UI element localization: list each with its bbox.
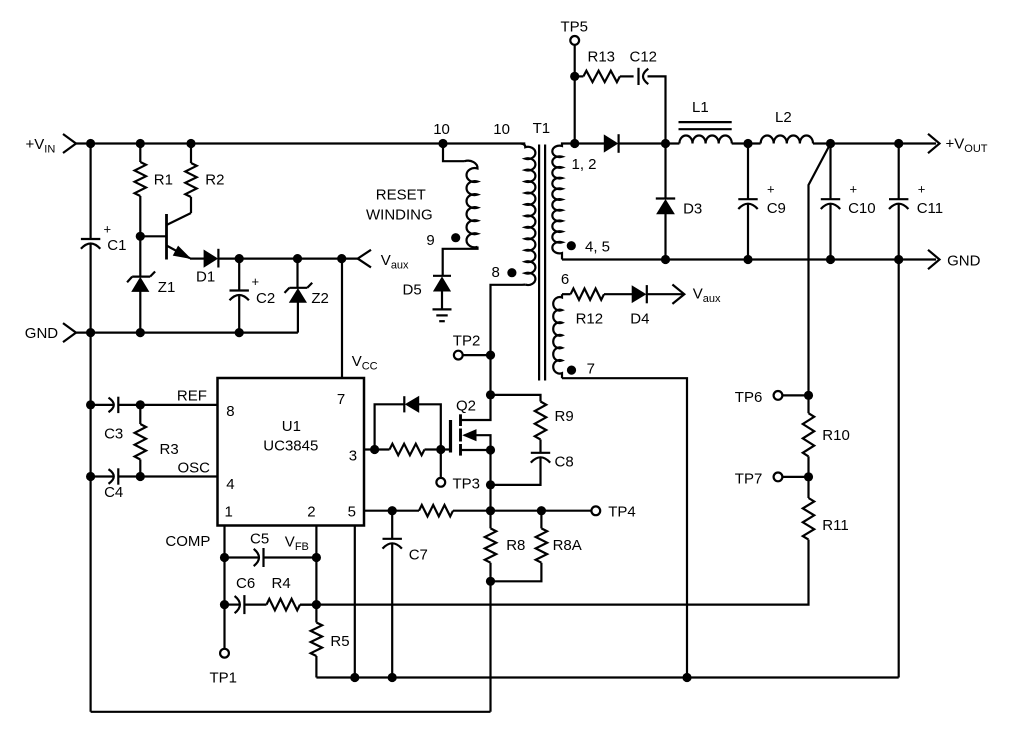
wire GND-out rail: [562, 258, 936, 260]
wire pin5: [364, 510, 419, 512]
core L1: [679, 121, 732, 123]
resistor R11: [803, 498, 814, 540]
wire TP6 diagonal: [809, 144, 831, 396]
node R4 right: [312, 600, 321, 609]
wire D4-arrow: [647, 293, 683, 295]
svg-text:R9: R9: [555, 408, 574, 425]
transistor emitter: [167, 246, 191, 259]
node R3 top: [136, 400, 145, 409]
wire R4 right: [300, 603, 316, 605]
svg-text:C6: C6: [236, 575, 255, 592]
wire C11 top: [898, 144, 900, 200]
node C5 right: [312, 553, 321, 562]
wire gate res right: [425, 448, 451, 450]
wire R12-D4: [604, 293, 632, 295]
transistor emitter arrow: [174, 247, 191, 259]
node source sense: [486, 480, 495, 489]
node D3 bottom: [661, 255, 670, 264]
diode gate bar: [403, 396, 405, 412]
wire C2 top: [238, 259, 240, 291]
resistor R8A: [536, 528, 547, 562]
svg-text:1, 2: 1, 2: [572, 156, 597, 173]
svg-text:C11: C11: [917, 200, 943, 217]
transistor collector: [167, 213, 192, 225]
capacitor C10: [821, 198, 840, 200]
node GND/Z1: [136, 328, 145, 337]
port GND-left chevron: [63, 323, 76, 342]
wire pin1 down: [223, 526, 225, 649]
svg-text:R3: R3: [160, 441, 179, 458]
wire R3 bottom: [139, 460, 141, 477]
wire D5-gnd: [441, 291, 443, 309]
diode D3 bar: [656, 197, 675, 199]
svg-text:D3: D3: [683, 201, 702, 218]
wire TP7-R11: [807, 477, 809, 498]
wire R8A bottom: [491, 563, 542, 582]
wire C6-R4: [244, 603, 266, 605]
svg-text:9: 9: [426, 232, 434, 249]
svg-text:TP6: TP6: [735, 389, 763, 406]
wire Z2 bottom: [297, 302, 299, 332]
phase dot 8: [507, 268, 516, 277]
node Q2 source: [486, 445, 495, 454]
port Vaux-right arrow: [672, 285, 684, 304]
svg-text:OSC: OSC: [178, 460, 211, 477]
wire aux7 line: [562, 378, 687, 677]
wire sense right: [453, 510, 591, 512]
node C5 left: [220, 553, 229, 562]
node gate: [436, 445, 445, 454]
svg-text:TP4: TP4: [608, 503, 636, 520]
diode D1 triangle: [204, 250, 217, 266]
node aux7 bottom: [682, 673, 691, 682]
node C4 left: [86, 472, 95, 481]
wire R9-C8: [539, 440, 541, 453]
wire R11 bottom: [300, 540, 809, 605]
node C11 top: [894, 139, 903, 148]
svg-text:4: 4: [226, 476, 234, 493]
wire R1 bottom: [139, 196, 141, 236]
wire aux out: [562, 293, 571, 295]
wire reset elbow bottom: [443, 247, 478, 276]
svg-text:R1: R1: [154, 171, 173, 188]
wire diode loop: [375, 404, 441, 449]
wire source down: [489, 450, 491, 528]
node +VIN/reset: [438, 139, 447, 148]
svg-text:UC3845: UC3845: [263, 438, 318, 455]
wire D3 top: [664, 144, 666, 199]
resistor R5: [311, 623, 322, 657]
node +VIN/R1: [136, 139, 145, 148]
wire R1 top: [139, 144, 141, 163]
svg-text:C8: C8: [555, 454, 574, 471]
wire R13 left: [575, 75, 584, 77]
svg-text:L2: L2: [775, 109, 792, 126]
wire bottom return: [91, 711, 491, 713]
wire C2 bottom: [238, 295, 240, 332]
node R8A top: [537, 506, 546, 515]
wire bottom rail: [316, 676, 898, 678]
transistor base bar: [165, 214, 168, 260]
port +VOUT chevron: [928, 134, 940, 153]
node +VIN/R2: [186, 139, 195, 148]
wire R3 top: [139, 405, 141, 424]
svg-text:C3: C3: [104, 426, 123, 443]
svg-text:+: +: [918, 182, 926, 197]
capacitor C2: [230, 289, 249, 291]
wire C4 right: [118, 475, 217, 477]
svg-text:R2: R2: [205, 171, 224, 188]
transistor Q2 arrow: [464, 430, 477, 441]
svg-text:8: 8: [492, 264, 500, 281]
wire C3 right: [118, 404, 217, 406]
node sense: [486, 506, 495, 515]
svg-text:C7: C7: [409, 547, 428, 564]
wire primary bottom elbow: [491, 285, 526, 395]
wire +VIN rail: [76, 142, 525, 144]
svg-text:COMP: COMP: [165, 533, 210, 550]
wire C11 bottom: [898, 204, 900, 260]
svg-text:C4: C4: [104, 484, 123, 501]
svg-text:C12: C12: [630, 49, 658, 66]
phase dot 7: [567, 366, 576, 375]
testpoint TP5: [570, 36, 579, 45]
node base: [136, 232, 145, 241]
inductor L1: [679, 136, 731, 144]
wire Q2 body: [465, 435, 491, 450]
wire C5 right: [264, 556, 317, 558]
zener Z2 bar: [289, 287, 307, 289]
node sec top: [570, 139, 579, 148]
transistor Q2 gate bar: [449, 420, 452, 453]
wire C9 bottom: [747, 204, 749, 260]
port +VIN chevron: [63, 134, 76, 153]
wire base-Z1: [139, 236, 141, 277]
svg-text:10: 10: [433, 121, 450, 138]
node GND/C2: [235, 328, 244, 337]
svg-text:D1: D1: [196, 269, 215, 286]
op-amp U1 box: [218, 378, 365, 526]
svg-text:WINDING: WINDING: [366, 206, 433, 223]
resistor sense: [419, 505, 453, 516]
zener Z1 bar: [132, 276, 150, 278]
svg-text:U1: U1: [282, 418, 301, 435]
resistor R9: [535, 402, 546, 440]
wire R8A top: [540, 511, 542, 529]
svg-text:Z2: Z2: [311, 290, 329, 307]
wire pin2 down: [315, 526, 317, 623]
capacitor C9: [738, 198, 757, 200]
svg-text:3: 3: [349, 447, 357, 464]
svg-text:8: 8: [226, 403, 234, 420]
diode D2 triangle: [604, 135, 617, 151]
svg-text:5: 5: [348, 503, 356, 520]
node Q2 drain: [486, 390, 495, 399]
node C3 left: [86, 400, 95, 409]
node C10 top: [826, 139, 835, 148]
diode D5 triangle: [434, 277, 450, 291]
node TP5/R13: [570, 72, 579, 81]
wire C10 top: [829, 144, 831, 200]
svg-text:RESET: RESET: [376, 186, 426, 203]
wire R9 top: [491, 395, 541, 402]
node C9 bottom: [743, 255, 752, 264]
wire C7 bottom: [391, 544, 393, 678]
wire TP7: [782, 476, 808, 478]
wire right drop: [898, 260, 900, 678]
wire C3 left: [91, 404, 114, 406]
wire GND-left rail: [76, 332, 298, 334]
testpoint TP7: [774, 473, 783, 482]
wire TP6: [782, 394, 808, 396]
wire base lead: [140, 235, 166, 237]
svg-text:D5: D5: [403, 282, 422, 299]
svg-text:C5: C5: [250, 531, 269, 548]
ground symbol: [433, 308, 452, 310]
svg-text:R13: R13: [588, 49, 616, 66]
node D3 top: [661, 139, 670, 148]
wire TP2: [463, 354, 491, 356]
svg-text:C10: C10: [848, 200, 876, 217]
wire left bus lower: [89, 244, 91, 712]
svg-text:R4: R4: [272, 575, 291, 592]
wire reset elbow top: [443, 144, 465, 162]
resistor R13: [583, 71, 620, 82]
diode D4 triangle: [632, 286, 645, 302]
node C10 bottom: [826, 255, 835, 264]
svg-text:+: +: [252, 274, 260, 289]
node Vcc tap: [337, 254, 346, 263]
wire TP6-R10: [807, 395, 809, 413]
resistor R1: [135, 162, 146, 196]
node C7 bottom: [388, 673, 397, 682]
zener Z1 triangle: [132, 278, 148, 292]
diode D2 bar: [617, 134, 619, 153]
svg-text:TP7: TP7: [735, 470, 763, 487]
wire C12 right: [648, 76, 666, 143]
node +VIN/C1: [86, 139, 95, 148]
resistor R3: [135, 424, 146, 460]
node C9 top: [743, 139, 752, 148]
node C7 top: [388, 506, 397, 515]
svg-text:T1: T1: [533, 120, 551, 137]
node C2 top: [235, 254, 244, 263]
transformer primary coil: [521, 144, 536, 286]
node pin5gnd: [350, 673, 359, 682]
diode D1 bar: [217, 249, 219, 268]
node TP6: [804, 391, 813, 400]
wire Z2 top: [296, 259, 298, 289]
wire Vcc: [341, 259, 343, 378]
testpoint TP2: [454, 351, 463, 360]
node Z2 top: [293, 254, 302, 263]
wire TP3 up: [440, 450, 442, 478]
wire R2 bottom: [190, 197, 192, 213]
svg-text:GND: GND: [25, 325, 59, 342]
reset winding coil: [465, 161, 478, 248]
svg-text:TP1: TP1: [210, 670, 238, 687]
wire pin5gnd down: [354, 526, 356, 678]
wire R10-TP7: [807, 456, 809, 477]
wire D1-Vaux: [218, 258, 357, 260]
capacitor C4: [117, 468, 119, 484]
wire R5 bottom: [315, 656, 317, 678]
svg-text:C1: C1: [107, 237, 126, 254]
resistor R4: [267, 599, 301, 610]
resistor gate: [390, 444, 425, 455]
svg-text:TP5: TP5: [561, 18, 589, 35]
capacitor C5: [262, 548, 264, 567]
node TP7: [804, 472, 813, 481]
wire Q2 source: [461, 449, 491, 451]
capacitor C8: [531, 452, 550, 454]
transformer secondary coil: [552, 144, 575, 260]
capacitor C3: [117, 397, 119, 413]
capacitor C7: [383, 538, 402, 540]
svg-text:D4: D4: [630, 311, 649, 328]
resistor R10: [803, 413, 814, 456]
svg-text:2: 2: [307, 503, 315, 520]
wire R8 bottom: [489, 563, 491, 712]
diode D3 triangle: [657, 200, 674, 214]
svg-text:R8: R8: [506, 537, 525, 554]
wire C9 top: [747, 144, 749, 200]
svg-text:7: 7: [587, 361, 595, 378]
svg-text:+: +: [767, 182, 775, 197]
wire L1-C9: [732, 142, 761, 144]
node GND/C1: [86, 328, 95, 337]
wire left bus upper: [89, 144, 91, 240]
resistor R2: [185, 163, 196, 197]
capacitor C6: [243, 595, 245, 614]
port GND-right chevron: [928, 250, 940, 269]
core T1: [538, 145, 540, 381]
wire C7 top: [391, 511, 393, 539]
wire C10 bottom: [829, 204, 831, 260]
resistor R12: [571, 289, 604, 300]
resistor R8: [485, 528, 496, 562]
testpoint TP6: [774, 391, 783, 400]
wire C5 left: [225, 556, 259, 558]
diode gate triangle: [406, 397, 419, 412]
svg-text:REF: REF: [177, 387, 207, 404]
svg-text:Q2: Q2: [456, 398, 476, 415]
wire Q2 drain: [461, 395, 491, 420]
capacitor C12: [637, 68, 639, 85]
svg-text:GND: GND: [947, 252, 981, 269]
testpoint TP3: [436, 478, 445, 487]
transistor Q2 channel: [459, 414, 462, 426]
node R8A bottom: [486, 577, 495, 586]
diode D4 bar: [646, 285, 648, 303]
node R3 bottom: [136, 472, 145, 481]
wire L2-out: [813, 142, 936, 144]
node TP2: [486, 351, 495, 360]
wire D3 bottom: [664, 214, 666, 260]
capacitor C11: [889, 198, 908, 200]
svg-text:R8A: R8A: [553, 537, 582, 554]
wire sec-D2: [575, 142, 604, 144]
svg-text:R11: R11: [822, 517, 848, 534]
wire emitter-D1: [190, 258, 204, 260]
svg-text:C9: C9: [767, 200, 786, 217]
testpoint TP1: [220, 649, 229, 658]
wire R2 top: [190, 144, 192, 164]
svg-text:Z1: Z1: [158, 279, 176, 296]
svg-text:TP2: TP2: [453, 333, 481, 350]
wire TP5 down: [574, 45, 576, 144]
phase dot 4,5: [567, 241, 576, 250]
svg-text:6: 6: [561, 271, 569, 288]
svg-text:4, 5: 4, 5: [585, 238, 610, 255]
svg-text:R12: R12: [576, 311, 604, 328]
node pin3 left: [370, 445, 379, 454]
testpoint TP4: [591, 506, 600, 515]
svg-text:R5: R5: [330, 633, 349, 650]
wire pin3: [364, 448, 390, 450]
zener Z2 triangle: [290, 289, 306, 302]
capacitor C1: [81, 238, 100, 240]
node C11 bottom: [894, 255, 903, 264]
wire Z1 bottom: [139, 291, 141, 332]
wire C8 bottom: [491, 458, 541, 485]
diode D5 bar: [433, 275, 451, 277]
svg-text:7: 7: [337, 391, 345, 408]
phase dot 9: [451, 233, 460, 242]
svg-text:+: +: [850, 182, 858, 197]
wire C4 left: [91, 475, 114, 477]
transformer aux coil: [553, 294, 562, 378]
inductor L2: [761, 136, 813, 144]
svg-text:1: 1: [225, 503, 233, 520]
svg-text:R10: R10: [822, 427, 850, 444]
svg-text:L1: L1: [692, 99, 709, 116]
svg-text:10: 10: [493, 121, 510, 138]
wire R13-C12: [620, 75, 634, 77]
node C6 left: [220, 600, 229, 609]
svg-text:TP3: TP3: [453, 476, 481, 493]
svg-text:+: +: [104, 222, 112, 237]
port Vaux-left chevron: [358, 250, 371, 268]
wire C6 left: [225, 603, 240, 605]
wire D2-L1node: [619, 142, 680, 144]
svg-text:C2: C2: [256, 290, 275, 307]
